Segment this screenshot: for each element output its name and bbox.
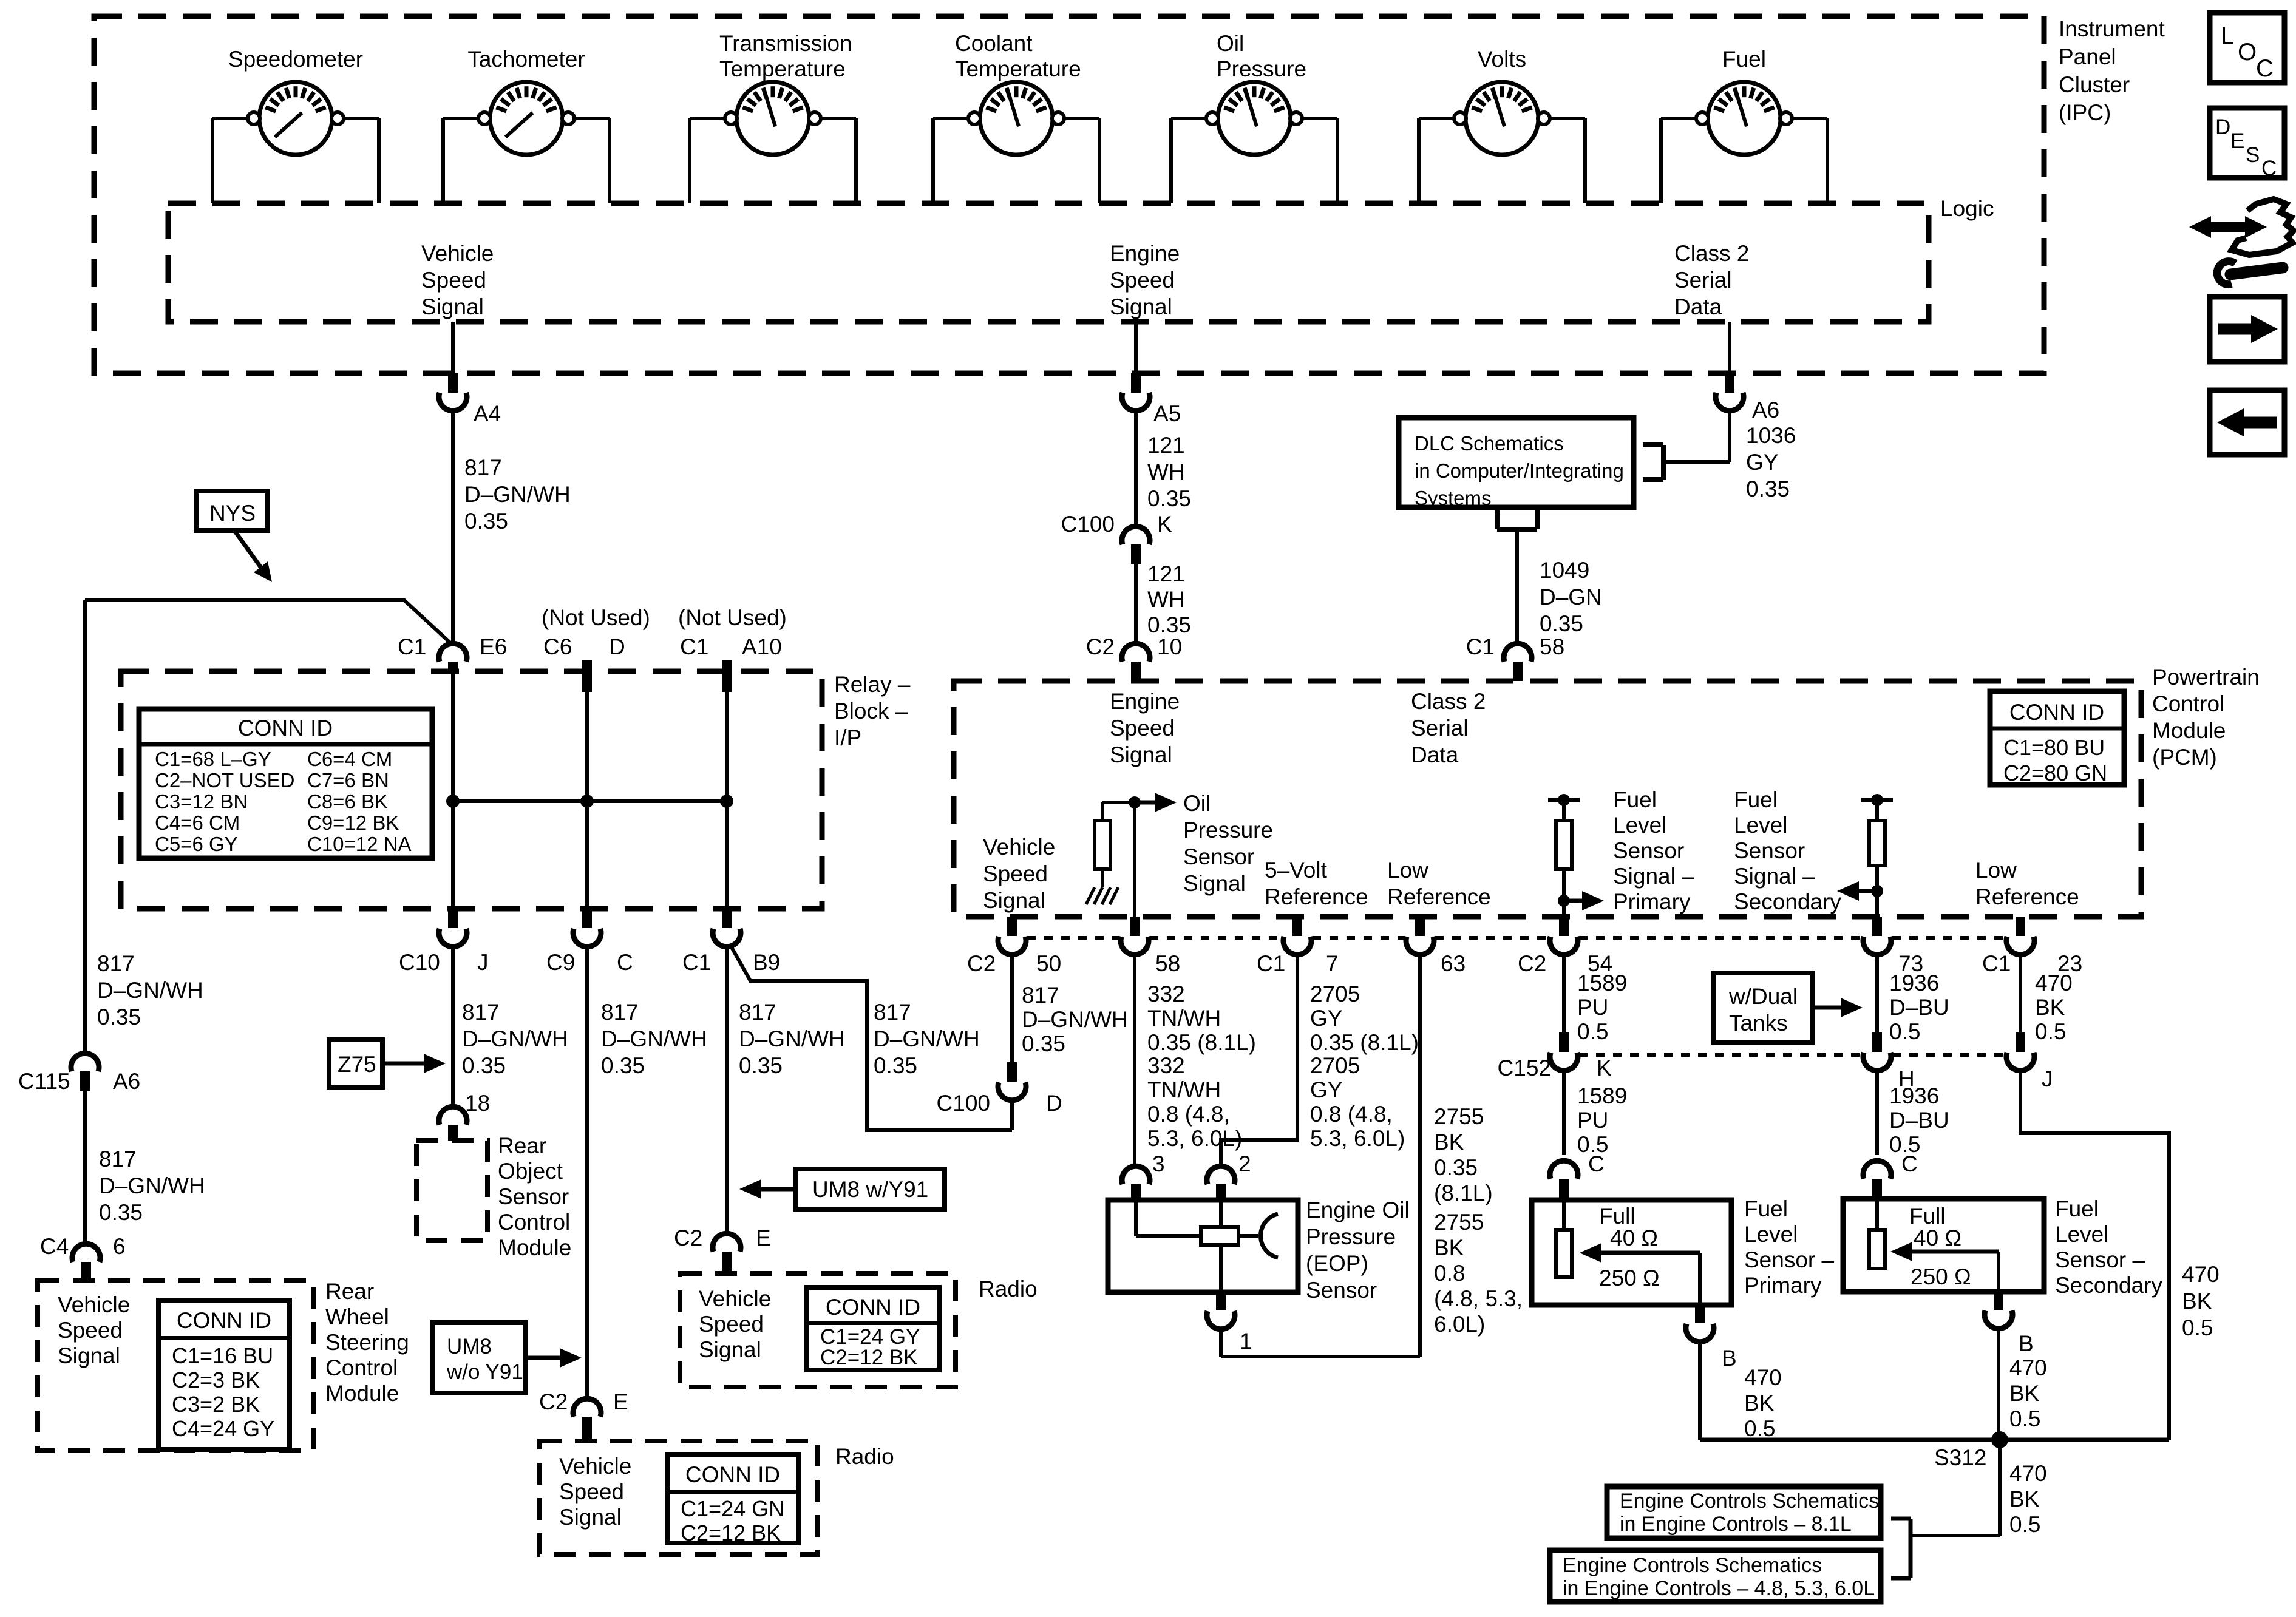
svg-text:Coolant: Coolant — [955, 31, 1033, 56]
svg-text:0.35: 0.35 — [1147, 612, 1191, 637]
svg-text:A4: A4 — [474, 401, 501, 426]
svg-text:C6=4 CM: C6=4 CM — [307, 748, 392, 770]
svg-text:1: 1 — [1240, 1329, 1252, 1354]
svg-text:58: 58 — [1540, 634, 1564, 659]
svg-text:Panel: Panel — [2059, 44, 2116, 69]
svg-text:0.35: 0.35 — [99, 1200, 143, 1225]
svg-text:C7=6 BN: C7=6 BN — [307, 769, 389, 792]
svg-text:in Engine Controls – 8.1L: in Engine Controls – 8.1L — [1620, 1513, 1852, 1536]
svg-text:C2: C2 — [1518, 951, 1546, 976]
svg-text:C2: C2 — [539, 1389, 568, 1414]
svg-text:Sensor: Sensor — [1306, 1278, 1377, 1303]
svg-text:817: 817 — [601, 1000, 639, 1025]
svg-text:250 Ω: 250 Ω — [1599, 1266, 1660, 1290]
svg-text:Speed: Speed — [559, 1479, 624, 1504]
svg-text:A5: A5 — [1153, 401, 1181, 426]
svg-text:Signal: Signal — [983, 888, 1045, 913]
svg-text:2755: 2755 — [1434, 1210, 1484, 1235]
svg-text:Serial: Serial — [1674, 268, 1732, 293]
svg-text:0.35: 0.35 — [462, 1053, 506, 1078]
svg-text:Data: Data — [1411, 742, 1459, 767]
svg-text:GY: GY — [1746, 450, 1778, 475]
svg-text:58: 58 — [1155, 951, 1180, 976]
svg-text:470: 470 — [2009, 1461, 2047, 1486]
svg-text:Signal: Signal — [58, 1343, 120, 1368]
svg-text:C1: C1 — [1982, 951, 2011, 976]
svg-text:0.5: 0.5 — [2009, 1406, 2040, 1431]
svg-text:332: 332 — [1147, 981, 1185, 1006]
svg-text:Volts: Volts — [1478, 47, 1526, 72]
svg-text:WH: WH — [1147, 459, 1185, 484]
svg-text:Steering: Steering — [325, 1330, 409, 1355]
svg-text:Wheel: Wheel — [325, 1304, 389, 1329]
svg-text:18: 18 — [465, 1091, 490, 1116]
svg-text:Level: Level — [1613, 813, 1666, 838]
svg-text:TN/WH: TN/WH — [1147, 1006, 1221, 1031]
svg-text:S312: S312 — [1934, 1445, 1986, 1470]
svg-text:Fuel: Fuel — [1744, 1196, 1788, 1221]
svg-text:C3=2 BK: C3=2 BK — [172, 1392, 260, 1417]
svg-text:817: 817 — [1022, 983, 1059, 1008]
svg-text:Engine Oil: Engine Oil — [1306, 1198, 1410, 1222]
svg-text:Pressure: Pressure — [1217, 56, 1306, 81]
svg-text:0.5: 0.5 — [2009, 1512, 2040, 1537]
svg-text:in Computer/Integrating: in Computer/Integrating — [1415, 459, 1624, 482]
svg-text:C10: C10 — [399, 950, 440, 975]
svg-text:Engine Controls Schematics: Engine Controls Schematics — [1620, 1490, 1879, 1513]
svg-text:0.35 (8.1L): 0.35 (8.1L) — [1147, 1030, 1256, 1055]
svg-text:Class 2: Class 2 — [1674, 241, 1749, 266]
svg-text:Secondary: Secondary — [1734, 889, 1841, 914]
svg-text:Transmission: Transmission — [719, 31, 852, 56]
svg-text:Signal: Signal — [1110, 294, 1172, 319]
svg-text:Speed: Speed — [1110, 268, 1175, 293]
svg-text:0.8: 0.8 — [1434, 1261, 1465, 1286]
svg-text:40 Ω: 40 Ω — [1610, 1225, 1658, 1250]
svg-text:Speed: Speed — [983, 861, 1048, 886]
svg-text:Signal –: Signal – — [1613, 864, 1694, 889]
svg-text:D–GN/WH: D–GN/WH — [462, 1026, 568, 1051]
svg-text:C1=24 GN: C1=24 GN — [681, 1496, 784, 1521]
svg-text:Primary: Primary — [1613, 889, 1691, 914]
svg-text:Full: Full — [1599, 1204, 1635, 1229]
svg-text:470: 470 — [2035, 971, 2073, 995]
svg-text:Fuel: Fuel — [1722, 47, 1766, 72]
svg-text:470: 470 — [2009, 1355, 2047, 1380]
svg-text:0.35: 0.35 — [874, 1053, 917, 1078]
svg-text:Sensor –: Sensor – — [1744, 1247, 1835, 1272]
svg-text:Tachometer: Tachometer — [467, 47, 585, 72]
svg-text:Vehicle: Vehicle — [421, 241, 494, 266]
svg-text:BK: BK — [2009, 1486, 2040, 1511]
svg-text:7: 7 — [1326, 951, 1339, 976]
svg-text:(IPC): (IPC) — [2059, 100, 2111, 125]
svg-text:Pressure: Pressure — [1183, 818, 1273, 842]
svg-text:BK: BK — [1434, 1130, 1464, 1154]
svg-text:817: 817 — [99, 1147, 137, 1171]
svg-text:Class 2: Class 2 — [1411, 689, 1486, 714]
svg-text:K: K — [1157, 512, 1172, 537]
svg-text:Control: Control — [498, 1210, 570, 1235]
svg-text:(PCM): (PCM) — [2152, 745, 2217, 770]
svg-text:Radio: Radio — [835, 1444, 894, 1469]
svg-text:Signal: Signal — [699, 1337, 761, 1362]
svg-text:C3=12 BN: C3=12 BN — [155, 790, 248, 813]
svg-text:Secondary: Secondary — [2055, 1273, 2162, 1298]
svg-text:E: E — [2230, 129, 2244, 153]
svg-text:O: O — [2238, 39, 2257, 66]
svg-text:D–GN: D–GN — [1540, 585, 1602, 609]
svg-text:Powertrain: Powertrain — [2152, 665, 2260, 690]
svg-text:Speed: Speed — [1110, 716, 1175, 741]
svg-text:C1: C1 — [682, 950, 711, 975]
svg-text:C2: C2 — [967, 951, 996, 976]
svg-text:Serial: Serial — [1411, 716, 1469, 741]
svg-text:Reference: Reference — [1975, 884, 2079, 909]
svg-text:Systems: Systems — [1415, 487, 1492, 509]
svg-text:Sensor: Sensor — [1613, 838, 1684, 863]
svg-text:CONN ID: CONN ID — [826, 1295, 920, 1320]
svg-text:121: 121 — [1147, 561, 1185, 586]
svg-text:C100: C100 — [937, 1091, 990, 1116]
svg-text:NYS: NYS — [209, 501, 256, 526]
svg-text:817: 817 — [97, 951, 135, 976]
svg-text:C2: C2 — [1086, 634, 1115, 659]
svg-text:3: 3 — [1152, 1151, 1165, 1176]
svg-text:50: 50 — [1036, 951, 1061, 976]
svg-text:Level: Level — [1734, 813, 1787, 838]
svg-text:D: D — [1046, 1091, 1062, 1116]
svg-text:0.35: 0.35 — [1022, 1031, 1065, 1056]
svg-text:C2=12 BK: C2=12 BK — [681, 1520, 781, 1545]
svg-text:C10=12 NA: C10=12 NA — [307, 833, 412, 855]
svg-text:Speed: Speed — [58, 1318, 123, 1343]
svg-text:C4=6 CM: C4=6 CM — [155, 812, 240, 834]
svg-text:BK: BK — [2035, 995, 2065, 1020]
svg-text:0.5: 0.5 — [1577, 1019, 1608, 1044]
svg-text:L: L — [2221, 22, 2234, 49]
svg-text:Signal: Signal — [559, 1505, 622, 1530]
svg-text:GY: GY — [1310, 1006, 1342, 1031]
svg-text:Primary: Primary — [1744, 1273, 1822, 1298]
svg-text:C4=24 GY: C4=24 GY — [172, 1416, 274, 1441]
svg-text:Oil: Oil — [1217, 31, 1244, 56]
svg-text:0.35: 0.35 — [601, 1053, 645, 1078]
svg-text:I/P: I/P — [834, 725, 861, 750]
svg-text:Rear: Rear — [498, 1133, 546, 1158]
svg-text:40 Ω: 40 Ω — [1914, 1225, 1961, 1250]
svg-text:0.5: 0.5 — [2035, 1019, 2066, 1044]
svg-text:CONN ID: CONN ID — [685, 1462, 780, 1487]
svg-text:470: 470 — [1744, 1365, 1782, 1390]
svg-text:817: 817 — [462, 1000, 500, 1025]
svg-text:C1: C1 — [680, 634, 708, 659]
svg-text:Pressure: Pressure — [1306, 1224, 1396, 1249]
svg-text:D–GN/WH: D–GN/WH — [97, 978, 203, 1003]
svg-text:J: J — [2042, 1066, 2053, 1091]
svg-text:Signal: Signal — [1110, 742, 1172, 767]
svg-text:Engine: Engine — [1110, 241, 1180, 266]
svg-text:w/o Y91: w/o Y91 — [446, 1360, 523, 1384]
svg-text:817: 817 — [464, 455, 502, 480]
svg-text:C1: C1 — [1466, 634, 1495, 659]
svg-text:Control: Control — [2152, 691, 2224, 716]
svg-text:0.35: 0.35 — [1434, 1155, 1478, 1180]
svg-text:Temperature: Temperature — [719, 56, 846, 81]
svg-text:C5=6 GY: C5=6 GY — [155, 833, 238, 855]
svg-text:Vehicle: Vehicle — [983, 835, 1055, 859]
svg-text:CONN ID: CONN ID — [177, 1308, 271, 1333]
svg-text:Temperature: Temperature — [955, 56, 1081, 81]
svg-text:470: 470 — [2182, 1262, 2220, 1287]
svg-text:Fuel: Fuel — [1613, 787, 1657, 812]
svg-text:Full: Full — [1909, 1204, 1946, 1229]
svg-text:E: E — [756, 1225, 771, 1250]
svg-text:Level: Level — [2055, 1222, 2108, 1247]
svg-text:C152: C152 — [1498, 1056, 1551, 1080]
svg-text:Sensor: Sensor — [1734, 838, 1805, 863]
svg-text:Radio: Radio — [979, 1276, 1038, 1301]
svg-text:D: D — [609, 634, 625, 659]
svg-text:5.3, 6.0L): 5.3, 6.0L) — [1310, 1126, 1405, 1151]
svg-text:D–GN/WH: D–GN/WH — [99, 1173, 205, 1198]
svg-text:Speed: Speed — [421, 268, 486, 293]
svg-text:C4: C4 — [40, 1234, 69, 1259]
svg-text:C: C — [617, 950, 633, 975]
svg-text:63: 63 — [1441, 951, 1466, 976]
svg-text:D–GN/WH: D–GN/WH — [1022, 1007, 1128, 1032]
svg-text:Rear: Rear — [325, 1279, 374, 1304]
svg-text:C2: C2 — [674, 1225, 702, 1250]
svg-text:0.35: 0.35 — [97, 1005, 141, 1029]
svg-text:GY: GY — [1310, 1077, 1342, 1102]
svg-text:(4.8, 5.3,: (4.8, 5.3, — [1434, 1286, 1523, 1311]
svg-text:C9=12 BK: C9=12 BK — [307, 812, 399, 834]
svg-text:C115: C115 — [18, 1069, 70, 1094]
svg-text:0.35: 0.35 — [464, 509, 508, 534]
svg-text:Sensor –: Sensor – — [2055, 1247, 2145, 1272]
svg-text:D–GN/WH: D–GN/WH — [874, 1026, 980, 1051]
svg-text:B: B — [1722, 1346, 1737, 1371]
svg-text:C6: C6 — [543, 634, 572, 659]
svg-text:C2=12 BK: C2=12 BK — [820, 1346, 918, 1369]
svg-text:10: 10 — [1157, 634, 1182, 659]
svg-text:Logic: Logic — [1940, 196, 1994, 221]
svg-text:Module: Module — [2152, 718, 2226, 743]
svg-text:1589: 1589 — [1577, 1083, 1627, 1108]
svg-text:E: E — [613, 1389, 628, 1414]
svg-text:Oil: Oil — [1183, 791, 1211, 816]
svg-text:C1=16 BU: C1=16 BU — [172, 1343, 273, 1368]
svg-text:C100: C100 — [1061, 512, 1115, 537]
svg-text:D–GN/WH: D–GN/WH — [601, 1026, 707, 1051]
svg-text:0.5: 0.5 — [2182, 1315, 2213, 1340]
svg-text:Control: Control — [325, 1355, 398, 1380]
svg-text:B9: B9 — [753, 950, 780, 975]
svg-text:332: 332 — [1147, 1053, 1185, 1078]
svg-text:Cluster: Cluster — [2059, 72, 2130, 97]
svg-text:Sensor: Sensor — [1183, 844, 1254, 869]
svg-text:Sensor: Sensor — [498, 1184, 569, 1209]
svg-text:BK: BK — [1744, 1391, 1775, 1415]
svg-text:w/Dual: w/Dual — [1728, 984, 1798, 1009]
svg-text:Module: Module — [498, 1235, 571, 1260]
svg-text:D–GN/WH: D–GN/WH — [464, 482, 571, 507]
svg-text:Module: Module — [325, 1381, 399, 1406]
svg-text:C: C — [1901, 1151, 1918, 1176]
svg-text:UM8 w/Y91: UM8 w/Y91 — [812, 1177, 928, 1202]
svg-text:250 Ω: 250 Ω — [1911, 1264, 1971, 1289]
svg-text:0.5: 0.5 — [1889, 1019, 1920, 1044]
svg-text:Reference: Reference — [1387, 884, 1491, 909]
svg-text:C2–NOT USED: C2–NOT USED — [155, 769, 294, 792]
svg-text:A10: A10 — [742, 634, 782, 659]
svg-text:C1: C1 — [1257, 951, 1285, 976]
svg-text:D–BU: D–BU — [1889, 1108, 1949, 1133]
svg-text:Vehicle: Vehicle — [559, 1454, 631, 1479]
svg-text:Object: Object — [498, 1159, 563, 1184]
svg-text:Tanks: Tanks — [1729, 1011, 1788, 1036]
svg-text:2: 2 — [1238, 1151, 1251, 1176]
svg-text:B: B — [2019, 1331, 2034, 1356]
svg-text:C2=80 GN: C2=80 GN — [2003, 761, 2107, 785]
svg-text:2755: 2755 — [1434, 1104, 1484, 1129]
svg-text:2705: 2705 — [1310, 981, 1360, 1006]
svg-text:Low: Low — [1975, 858, 2017, 883]
svg-text:1589: 1589 — [1577, 971, 1627, 995]
svg-text:D–GN/WH: D–GN/WH — [739, 1026, 845, 1051]
svg-text:C8=6 BK: C8=6 BK — [307, 790, 388, 813]
svg-text:E6: E6 — [480, 634, 507, 659]
svg-text:UM8: UM8 — [447, 1335, 492, 1358]
svg-text:Signal: Signal — [421, 294, 484, 319]
svg-text:121: 121 — [1147, 433, 1185, 458]
svg-text:WH: WH — [1147, 587, 1185, 612]
svg-text:(Not Used): (Not Used) — [678, 605, 787, 630]
svg-text:0.35 (8.1L): 0.35 (8.1L) — [1310, 1030, 1419, 1055]
svg-text:A6: A6 — [113, 1069, 140, 1094]
svg-text:Fuel: Fuel — [1734, 787, 1778, 812]
svg-text:Instrument: Instrument — [2059, 16, 2165, 41]
svg-text:Speed: Speed — [699, 1312, 764, 1337]
svg-text:D: D — [2215, 115, 2230, 139]
svg-text:1936: 1936 — [1889, 1083, 1939, 1108]
svg-text:D–BU: D–BU — [1889, 995, 1949, 1020]
svg-text:1049: 1049 — [1540, 558, 1589, 583]
svg-text:in Engine Controls – 4.8, 5.3,: in Engine Controls – 4.8, 5.3, 6.0L — [1563, 1577, 1875, 1600]
svg-text:2705: 2705 — [1310, 1053, 1360, 1078]
svg-text:C1=80 BU: C1=80 BU — [2003, 735, 2105, 760]
svg-text:0.8 (4.8,: 0.8 (4.8, — [1310, 1102, 1393, 1127]
svg-text:0.8 (4.8,: 0.8 (4.8, — [1147, 1102, 1230, 1127]
svg-text:Engine Controls Schematics: Engine Controls Schematics — [1563, 1554, 1822, 1577]
svg-text:6: 6 — [113, 1234, 126, 1259]
svg-text:1036: 1036 — [1746, 423, 1796, 448]
svg-text:Data: Data — [1674, 294, 1722, 319]
svg-text:Block –: Block – — [834, 699, 908, 724]
svg-text:1936: 1936 — [1889, 971, 1939, 995]
svg-text:TN/WH: TN/WH — [1147, 1077, 1221, 1102]
svg-text:C1=68 L–GY: C1=68 L–GY — [155, 748, 271, 770]
svg-text:(Not Used): (Not Used) — [542, 605, 650, 630]
svg-text:0.35: 0.35 — [739, 1053, 783, 1078]
svg-text:(EOP): (EOP) — [1306, 1251, 1368, 1276]
svg-text:A6: A6 — [1752, 398, 1779, 422]
svg-text:0.35: 0.35 — [1147, 486, 1191, 511]
svg-text:C: C — [2261, 157, 2277, 180]
svg-text:817: 817 — [739, 1000, 776, 1025]
svg-text:K: K — [1597, 1056, 1612, 1080]
svg-text:Engine: Engine — [1110, 689, 1180, 714]
svg-text:CONN ID: CONN ID — [2009, 700, 2104, 725]
svg-text:BK: BK — [2182, 1289, 2212, 1314]
svg-text:PU: PU — [1577, 1108, 1608, 1133]
svg-text:PU: PU — [1577, 995, 1608, 1020]
svg-text:BK: BK — [1434, 1235, 1464, 1260]
svg-text:Low: Low — [1387, 858, 1428, 883]
svg-text:5–Volt: 5–Volt — [1265, 858, 1328, 883]
svg-text:Vehicle: Vehicle — [58, 1292, 130, 1317]
svg-text:S: S — [2246, 143, 2260, 167]
svg-text:CONN ID: CONN ID — [238, 716, 333, 741]
svg-text:Level: Level — [1744, 1222, 1798, 1247]
svg-text:(8.1L): (8.1L) — [1434, 1181, 1493, 1205]
svg-text:Speedometer: Speedometer — [228, 47, 363, 72]
svg-text:C1: C1 — [398, 634, 426, 659]
svg-text:DLC Schematics: DLC Schematics — [1415, 432, 1564, 455]
svg-text:Fuel: Fuel — [2055, 1196, 2099, 1221]
svg-text:0.35: 0.35 — [1540, 611, 1583, 636]
svg-text:C: C — [2256, 55, 2274, 82]
svg-text:Vehicle: Vehicle — [699, 1286, 771, 1311]
svg-text:6.0L): 6.0L) — [1434, 1312, 1485, 1337]
svg-text:817: 817 — [874, 1000, 911, 1025]
svg-text:Signal –: Signal – — [1734, 864, 1815, 889]
svg-text:C9: C9 — [546, 950, 575, 975]
svg-text:C: C — [1588, 1151, 1605, 1176]
svg-text:BK: BK — [2009, 1381, 2040, 1406]
svg-text:Relay –: Relay – — [834, 672, 911, 697]
svg-text:Reference: Reference — [1265, 884, 1368, 909]
svg-text:Z75: Z75 — [338, 1052, 376, 1077]
svg-text:0.35: 0.35 — [1746, 476, 1790, 501]
svg-text:C2=3 BK: C2=3 BK — [172, 1368, 260, 1392]
svg-text:Signal: Signal — [1183, 871, 1246, 896]
svg-text:0.5: 0.5 — [1744, 1416, 1775, 1441]
svg-text:J: J — [477, 950, 489, 975]
